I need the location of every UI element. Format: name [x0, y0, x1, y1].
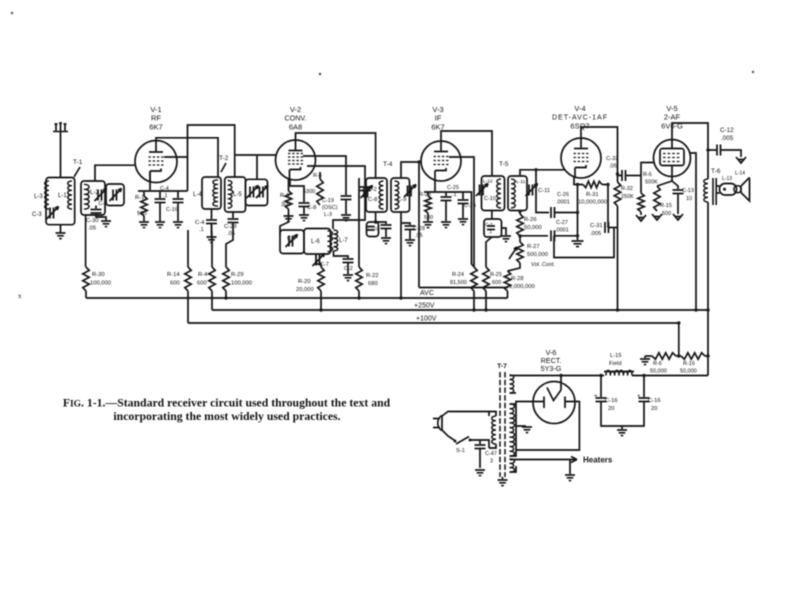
- svg-text:R-1: R-1: [135, 195, 144, 201]
- capacitor C-16: [177, 191, 179, 198]
- ground below R-6: [640, 212, 642, 215]
- svg-text:R-29: R-29: [231, 272, 244, 278]
- capacitor C-4 .1: [159, 191, 161, 198]
- cathode bypass capacitor C-13 10: [672, 181, 678, 189]
- svg-text:T-6: T-6: [711, 168, 721, 175]
- svg-text:500: 500: [662, 211, 671, 217]
- svg-text:R-14: R-14: [167, 272, 180, 278]
- T-6 primary coil in line: [704, 179, 708, 202]
- return stub line: [419, 287, 508, 289]
- capacitor C-31 .005: [604, 222, 606, 233]
- svg-text:L-4: L-4: [193, 192, 202, 198]
- svg-text:incorporating the most widely: incorporating the most widely used pract…: [113, 410, 340, 423]
- T-2 secondary box with coil L-5: [225, 177, 246, 212]
- wire T-4 secondary bottom to AVC: [400, 212, 402, 298]
- svg-text:.1: .1: [163, 193, 168, 199]
- svg-text:R-23: R-23: [419, 192, 431, 198]
- wire V-1 screen feed: [164, 125, 235, 157]
- ground below V-4 cathode chain: [572, 240, 584, 242]
- svg-text:C-4: C-4: [195, 220, 205, 226]
- svg-text:V-4: V-4: [574, 104, 585, 113]
- ground stub in rectifier loop: [516, 425, 526, 427]
- wire R-29 to AVC: [225, 291, 227, 298]
- filter capacitor C-16 20: [600, 376, 602, 398]
- wire +100V down to divider junction: [678, 323, 680, 356]
- coil L-3: [45, 181, 49, 209]
- oscillator coil box L-6: [304, 229, 331, 255]
- divider junction: [677, 354, 680, 357]
- tube V-6 rectifier: [533, 382, 575, 424]
- wire V-3 plate to T-5 primary: [441, 131, 492, 176]
- wire V-2 anode-grid to oscillator: [307, 166, 365, 186]
- wire R-22 branch: [358, 178, 360, 267]
- capacitor C-26 .0001: [536, 170, 549, 213]
- wire HV secondary bottom loop to V-6: [510, 402, 545, 457]
- speck: [11, 12, 14, 15]
- ground: [385, 229, 387, 237]
- wires plug to switch and transformer: [442, 412, 489, 417]
- wire V-1 plate to T-2 primary: [156, 138, 218, 177]
- wire V-5 plate to T-6 and C-12: [672, 123, 708, 179]
- ground below C-47: [479, 449, 481, 468]
- svg-text:.005: .005: [721, 135, 734, 142]
- wire HV secondary top to V-6 plate line: [510, 375, 605, 377]
- svg-text:C-8: C-8: [307, 205, 316, 211]
- speaker cone: [741, 178, 750, 202]
- svg-text:+100V: +100V: [416, 316, 437, 323]
- variable capacitor C-3: [49, 208, 51, 219]
- resistor R-4 600: [209, 267, 215, 291]
- svg-text:DET-AVC-1AF: DET-AVC-1AF: [552, 115, 608, 122]
- svg-text:C-25: C-25: [447, 185, 459, 191]
- svg-text:10,000,000: 10,000,000: [578, 200, 607, 206]
- svg-text:Vol. Cont.: Vol. Cont.: [531, 262, 555, 268]
- svg-text:600: 600: [170, 281, 180, 287]
- trimmer stub: [256, 155, 258, 179]
- volume control resistor R-27 500000: [518, 234, 521, 237]
- svg-text:C-16: C-16: [605, 398, 618, 404]
- svg-text:600: 600: [492, 280, 501, 286]
- svg-text:R-25: R-25: [490, 272, 502, 278]
- wire V-3 cathode bus: [434, 180, 436, 192]
- ground below T-7: [502, 477, 504, 479]
- antenna: [53, 131, 68, 133]
- svg-text:R-22: R-22: [366, 273, 379, 279]
- svg-text:100,000: 100,000: [231, 281, 252, 287]
- resistor R-25 600: [483, 267, 489, 291]
- svg-text:R-28: R-28: [511, 276, 524, 282]
- cathode bus of V-1: [138, 190, 188, 192]
- wire V-3 screen to R-24: [449, 157, 474, 267]
- svg-text:250K: 250K: [621, 194, 634, 200]
- svg-text:L-15: L-15: [610, 353, 622, 359]
- svg-text:20,000: 20,000: [296, 287, 314, 293]
- T-1 primary box with coils L-3 and L-1: [46, 178, 75, 225]
- capacitor C-30: [95, 206, 97, 209]
- switch S-1: [456, 437, 469, 445]
- ground below C-28: [409, 230, 411, 239]
- capacitor C-47 3: [475, 444, 486, 446]
- T-7 heater winding: [510, 459, 515, 472]
- capacitor C-12 .005: [708, 149, 717, 151]
- svg-text:.0001: .0001: [555, 228, 569, 234]
- svg-text:T-7: T-7: [497, 363, 507, 370]
- tube V-1: [135, 141, 177, 183]
- svg-text:3: 3: [490, 459, 493, 465]
- svg-text:R-30: R-30: [92, 272, 105, 278]
- ground below C-25: [445, 201, 447, 221]
- svg-text:6A8: 6A8: [289, 123, 302, 132]
- capacitor C-21: [360, 186, 371, 188]
- loop wire below detector: [554, 228, 614, 258]
- svg-text:C-22: C-22: [368, 226, 379, 232]
- svg-text:C-13: C-13: [682, 188, 694, 194]
- wire heater winding bottom: [510, 466, 517, 472]
- svg-text:T-1: T-1: [73, 159, 83, 166]
- wire V-4 plate over to C-32: [581, 127, 618, 174]
- resistor R-22 680: [356, 267, 362, 291]
- T-5 primary box with coil and trimmer C-10: [482, 176, 505, 211]
- svg-text:L-5: L-5: [233, 192, 242, 198]
- T-4 primary box with coil and C-8 trimmer: [366, 178, 387, 212]
- trimmer box with capacitor C-5: [106, 184, 124, 206]
- tube V-3: [421, 141, 461, 181]
- svg-text:x: x: [18, 292, 22, 300]
- svg-text:+250V: +250V: [414, 303, 435, 310]
- svg-text:50,000: 50,000: [524, 225, 542, 231]
- ground below C-8: [303, 207, 305, 214]
- resistor R-8 300: [288, 179, 290, 191]
- trimmer capacitor C-7: [315, 254, 317, 258]
- coil L-5: [228, 181, 233, 209]
- wire R-20 to +250V: [320, 291, 322, 310]
- wire T-5 secondary top to V-4 diode: [520, 170, 565, 176]
- capacitor C-32 .05: [616, 172, 619, 175]
- wire C-29 to R-29: [226, 223, 233, 267]
- capacitor below T-4 primary: [376, 222, 386, 224]
- T-6 core: [712, 178, 714, 205]
- wire R-14 to +100V: [187, 291, 189, 323]
- svg-text:81,500: 81,500: [450, 280, 467, 286]
- wire V-1 cathode down: [149, 171, 151, 191]
- svg-text:.05: .05: [227, 231, 235, 237]
- coil L-2: [84, 184, 89, 209]
- svg-text:C-11: C-11: [538, 188, 550, 194]
- wire R-22 to AVC: [358, 291, 360, 298]
- wire T-1 secondary bottom to R-30: [85, 215, 87, 267]
- T-7 core: [499, 372, 501, 477]
- svg-text:50,000: 50,000: [680, 369, 697, 375]
- ground below C-28: [347, 263, 349, 274]
- svg-text:C-29: C-29: [224, 224, 237, 230]
- oscillator coil L-7: [334, 230, 338, 251]
- tube V-4: [561, 138, 601, 178]
- capacitor C-25 J: [445, 192, 447, 196]
- svg-text:+: +: [637, 394, 641, 400]
- bleeder resistor R-16 50000: [676, 355, 681, 357]
- ground below C-4: [159, 203, 161, 221]
- svg-text:2-AF: 2-AF: [664, 113, 681, 122]
- svg-text:6K7: 6K7: [149, 123, 162, 132]
- ground below R-8: [288, 209, 290, 215]
- svg-text:.005: .005: [590, 231, 601, 237]
- coil L-4: [213, 180, 218, 206]
- svg-text:.1: .1: [488, 229, 492, 235]
- svg-text:.05: .05: [609, 164, 617, 170]
- svg-text:T-4: T-4: [383, 161, 393, 168]
- +100V bus line: [188, 322, 679, 324]
- T-7 primary coil: [492, 416, 496, 444]
- resistor R-31 10 megohm: [583, 181, 602, 187]
- svg-text:1,000,000: 1,000,000: [509, 284, 535, 290]
- resistor R-20 20000: [316, 260, 321, 267]
- ground below heater winding: [569, 460, 571, 475]
- svg-text:.05: .05: [88, 226, 96, 232]
- wires voice coil to core: [716, 185, 719, 187]
- svg-text:C-10: C-10: [484, 196, 496, 202]
- filter capacitor C-46 20: [643, 376, 645, 398]
- svg-text:C-4: C-4: [160, 186, 169, 192]
- wire T-5 primary bottom to C-75 box: [491, 211, 493, 220]
- T-1 secondary box with coil L-2: [81, 181, 105, 215]
- capacitor C-28 J: [334, 251, 349, 258]
- T-7 high voltage secondary coil: [510, 404, 515, 456]
- svg-text:300: 300: [281, 202, 291, 208]
- wire oscillator grid: [280, 215, 289, 235]
- svg-text:R-15: R-15: [660, 203, 672, 209]
- resistor R-30 100000: [83, 267, 89, 291]
- plate load resistor R-32 250K: [617, 174, 619, 182]
- svg-text:5300: 5300: [303, 189, 315, 195]
- svg-text:C-9: C-9: [397, 197, 406, 203]
- resistor R-24 81500: [471, 267, 477, 291]
- wire V-3 cathode return parallel: [465, 192, 474, 267]
- ground for C-30: [96, 213, 106, 220]
- ground below C-13: [677, 194, 679, 214]
- wire T-1 secondary to grid of V-1: [95, 165, 136, 181]
- ground below C-16: [177, 203, 179, 221]
- svg-text:RF: RF: [151, 114, 161, 123]
- wire V-2 plate to T-4 primary: [296, 133, 376, 178]
- ground below C-12: [736, 157, 746, 163]
- svg-text:10: 10: [686, 196, 692, 202]
- wire T-4 secondary top to V-3 grid: [401, 162, 421, 178]
- wire R-32 to +250V: [617, 206, 619, 310]
- capacitor C-8: [303, 191, 305, 202]
- speck: [752, 71, 754, 73]
- svg-text:C-16: C-16: [166, 207, 178, 213]
- svg-text:500,000: 500,000: [527, 252, 548, 258]
- svg-text:500K: 500K: [645, 180, 658, 186]
- capacitor C-28 .05 below T-4 secondary: [401, 223, 410, 225]
- wire C-21 to oscillator coil: [333, 191, 365, 229]
- wire L-15 to +250V corner: [632, 375, 708, 377]
- svg-text:T-2: T-2: [219, 155, 229, 162]
- svg-text:C-12: C-12: [720, 127, 734, 134]
- ground below C-24: [462, 204, 464, 218]
- svg-text:R-32: R-32: [621, 186, 633, 192]
- tube V-2: [276, 140, 316, 180]
- svg-text:500: 500: [137, 211, 147, 217]
- wire rectifier filament winding stub: [510, 392, 517, 394]
- svg-text:680: 680: [368, 281, 378, 287]
- svg-text:C-8: C-8: [368, 197, 377, 203]
- resistor R-23 500: [427, 192, 429, 196]
- svg-text:L-6: L-6: [311, 239, 320, 245]
- wire to R-25: [486, 237, 492, 267]
- filter capacitor ground bus: [601, 402, 644, 426]
- grid return vertical: [418, 162, 420, 288]
- svg-text:FIG. 1-1.—Standard receiver ci: FIG. 1-1.—Standard receiver circuit used…: [63, 397, 391, 410]
- grid resistor R-6 500K: [640, 176, 642, 194]
- wire to V-5 grid: [641, 163, 654, 176]
- svg-text:L-11: L-11: [516, 179, 526, 185]
- resistor R-26 50000: [517, 214, 523, 236]
- V-6 plates: [543, 397, 545, 409]
- svg-text:C-27: C-27: [556, 220, 568, 226]
- capacitor C-22 box: [367, 222, 379, 237]
- svg-text:C-31: C-31: [590, 223, 603, 229]
- svg-text:L-3: L-3: [34, 194, 43, 200]
- svg-text:6SQ7: 6SQ7: [570, 122, 589, 131]
- svg-text:C-16: C-16: [648, 398, 661, 404]
- ground below T-1 primary: [60, 225, 62, 233]
- svg-text:C-24: C-24: [464, 203, 476, 209]
- ground below C-44: [211, 224, 213, 236]
- capacitor C-20 screen bypass: [341, 195, 352, 197]
- V-6 filament: [547, 388, 561, 401]
- svg-text:R-20: R-20: [298, 279, 311, 285]
- wire T-4 primary bottom: [375, 212, 377, 222]
- capacitor C-24 J: [462, 192, 464, 199]
- svg-text:20: 20: [651, 406, 657, 412]
- wire R-26 R-27 junction: [519, 236, 521, 242]
- svg-text:C-47: C-47: [485, 451, 497, 457]
- wire T-2 primary bottom to R-4: [211, 224, 214, 240]
- variable capacitor C-2: [97, 190, 99, 201]
- field coil L-15: [604, 371, 634, 373]
- wire R-31 right end down to C-31: [602, 185, 608, 228]
- wire T-2 secondary top to V-2 signal grid: [235, 155, 277, 177]
- svg-text:R-31: R-31: [586, 192, 599, 198]
- svg-text:T-5: T-5: [499, 161, 509, 168]
- wire cathode bus V-2: [290, 179, 304, 191]
- oscillator box with variable capacitor C-6: [280, 230, 304, 254]
- speaker voice coil: [720, 184, 737, 196]
- ground below C-20: [345, 200, 347, 214]
- svg-text:Heaters: Heaters: [583, 456, 613, 465]
- svg-text:R-6: R-6: [643, 172, 652, 178]
- svg-text:AVC: AVC: [420, 290, 434, 297]
- wire T-6 primary bottom to +250V rail: [707, 202, 709, 376]
- svg-text:C-6: C-6: [287, 236, 296, 242]
- svg-text:R-24: R-24: [452, 272, 464, 278]
- svg-text:CONV.: CONV.: [284, 114, 306, 123]
- resistor R-29 100000: [223, 267, 229, 291]
- resistor R-6 5300: [319, 172, 321, 179]
- wire T-5 secondary bottom to R-26: [519, 211, 521, 215]
- svg-text:R-26: R-26: [524, 217, 537, 223]
- svg-text:20: 20: [608, 406, 614, 412]
- capacitor C-44 below T-2 primary: [211, 209, 213, 219]
- svg-text:L-7: L-7: [339, 238, 348, 244]
- svg-text:R-4: R-4: [198, 272, 208, 278]
- cathode resistor R-15 500: [657, 177, 672, 187]
- svg-text:.0001: .0001: [556, 200, 570, 206]
- svg-text:C-30: C-30: [86, 218, 99, 224]
- wire switch to C-47 and primary: [470, 440, 480, 444]
- V-6 return loop: [516, 402, 579, 451]
- T-4 secondary box with coil and C-9 trimmer: [391, 178, 410, 212]
- wire R-30 to AVC line: [85, 291, 87, 298]
- T-5 secondary box with coil L-11: [508, 176, 527, 211]
- wire V-4 cathode ground chain: [577, 185, 579, 241]
- svg-text:C-32: C-32: [606, 156, 619, 162]
- svg-text:50,000: 50,000: [650, 369, 667, 375]
- capacitor C-27 .0001: [520, 235, 548, 237]
- svg-text:R-27: R-27: [527, 244, 540, 250]
- trimmer box with capacitors C-5 C-29: [246, 179, 268, 205]
- svg-text:C-7: C-7: [485, 222, 493, 228]
- svg-text:C-3: C-3: [32, 212, 42, 218]
- svg-text:L-14: L-14: [735, 171, 745, 177]
- tube V-5: [654, 140, 691, 177]
- heater arrow: [510, 459, 578, 461]
- ground below R-15: [652, 214, 662, 220]
- wire +250V divider junction marker: [677, 321, 680, 324]
- capacitor C-75 box: [484, 219, 502, 237]
- T-7 rectifier filament winding: [510, 375, 514, 393]
- wire C-31 to R-32 leg: [609, 227, 618, 229]
- +250V bus line: [212, 309, 708, 311]
- resistor R-1 500: [143, 191, 145, 196]
- ground below R-1: [143, 216, 145, 221]
- wire R-28 to AVC end: [507, 291, 509, 298]
- svg-text:(OSC): (OSC): [322, 205, 338, 211]
- svg-text:L-3: L-3: [324, 212, 332, 218]
- svg-text:100,000: 100,000: [90, 281, 111, 287]
- ground right of C-75: [502, 228, 507, 235]
- svg-text:C-19: C-19: [322, 198, 334, 204]
- wire R-27 to R-28: [508, 263, 521, 271]
- line plug: [433, 419, 440, 428]
- capacitor C-29 .05: [232, 212, 234, 218]
- svg-text:5Y3-G: 5Y3-G: [541, 364, 562, 373]
- svg-text:+: +: [594, 394, 598, 400]
- svg-text:C-26: C-26: [557, 192, 569, 198]
- svg-text:L-13: L-13: [722, 176, 732, 182]
- wire R-24 to +250V: [473, 291, 475, 310]
- speck: [319, 73, 321, 75]
- wire antenna to T-1: [60, 131, 62, 178]
- svg-text:R-6: R-6: [313, 173, 322, 179]
- wire V-4 cathode: [574, 177, 583, 185]
- svg-text:L-12: L-12: [483, 179, 493, 185]
- svg-text:.1: .1: [199, 227, 204, 233]
- wire R-25 to +250V: [485, 291, 487, 310]
- svg-text:R-6: R-6: [653, 361, 662, 367]
- ground below R-23: [427, 213, 429, 221]
- resistor R-28 1000000: [504, 271, 510, 291]
- coil L-1: [68, 181, 72, 209]
- wire V-2 screen to bypass: [303, 156, 346, 195]
- svg-text:L-1: L-1: [58, 193, 67, 199]
- ground left of bleeder: [644, 356, 646, 358]
- wire R-4 to +250V: [211, 291, 213, 310]
- svg-text:R-16: R-16: [683, 361, 695, 367]
- svg-text:Field: Field: [609, 361, 622, 367]
- resistor R-14 600: [187, 230, 189, 267]
